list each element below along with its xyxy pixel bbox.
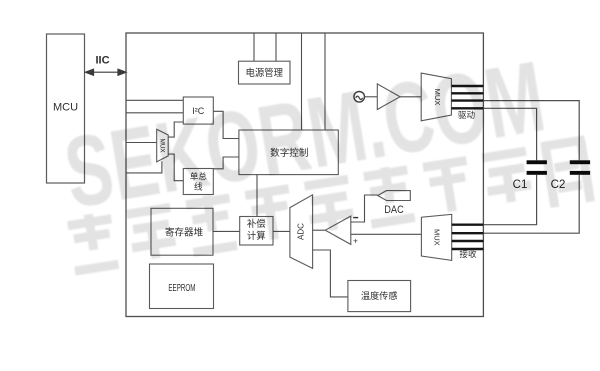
wire: box edge to I2C line 2 [126,112,183,114]
wire: DAC to comparator minus input [351,195,378,222]
svg-text:接收: 接收 [459,248,477,259]
watermark row 1: SEKORM.COM [57,40,552,229]
wire: oscillator to amplifier [365,96,378,98]
receive input line 3 [452,240,484,242]
receive input line 1 [452,223,484,225]
svg-text:MUX: MUX [433,229,442,246]
wire: C2 bottom to receive line 2 [483,175,579,233]
svg-text:寄存器堆: 寄存器堆 [165,227,204,239]
watermark row 2: CJK characters (drawn) [67,136,595,283]
driver output line 2 [451,92,483,94]
svg-text:MCU: MCU [53,102,78,114]
main chip boundary box [126,33,483,317]
wire: one-wire to digital control [213,157,239,169]
wire: VDD left to power mgmt [253,33,255,61]
one-wire (single bus) block [183,169,213,195]
svg-text:计算: 计算 [247,230,266,241]
compensation calc block [240,217,273,246]
wire: drive to C1 top [483,108,536,160]
temperature sensor block [348,281,411,312]
register file block [151,208,213,255]
amplifier (triangle) [377,84,400,110]
receiver mux (trapezoid) [421,214,451,260]
receive input line 2 [452,232,484,234]
driver mux (trapezoid) [421,73,451,121]
oscillator [354,92,365,103]
driver output line 3 [451,99,483,101]
wire: box edge to mux M1 [126,142,157,144]
wire: mux M1 to I2C [168,122,183,137]
bus select mux M1 [157,129,169,162]
comparator (triangle) [325,216,358,246]
svg-text:温度传感: 温度传感 [361,290,398,301]
capacitor C2 (transducer) [551,160,590,191]
EEPROM block [150,264,214,309]
wire: box edge to I2C line 1 [126,99,183,101]
svg-text:ADC: ADC [296,223,305,240]
svg-text:+: + [353,237,358,246]
wire: digital control to compensation [256,175,258,217]
digital control block [239,130,338,175]
wire: VDD right to power mgmt [275,33,277,61]
svg-text:DAC: DAC [384,204,404,216]
wire: comparator to ADC [313,229,326,231]
wire: box edge to mux M1 bottom [126,161,162,173]
wire: top edge to digital control (left) [301,33,303,130]
receive input line 4 [452,248,484,250]
DAC block (tag shape) [378,191,411,216]
wire: ADC to temperature sensor [313,250,348,297]
svg-text:电源管理: 电源管理 [245,67,283,78]
wire: register file to compensation [213,230,240,232]
capacitor C1 (transducer) [513,160,547,191]
wire: receiver mux to comparator plus input [351,233,422,235]
svg-text:EEPROM: EEPROM [168,282,195,294]
wire: drive to C2 top [483,101,579,161]
power management block [239,61,291,84]
wire: compensation to ADC [273,230,290,232]
I2C block [183,97,213,124]
MCU box [47,34,85,183]
driver output line 4 [451,107,483,109]
wire: mux M1 to one-wire block [168,154,183,181]
wire: amplifier to driver mux [400,96,421,98]
wire: top edge to digital control (right) [324,33,326,130]
IIC bus double arrow [86,55,127,76]
wire: C1 bottom to receive line 1 [483,175,536,225]
svg-text:补偿: 补偿 [247,218,266,229]
svg-text:IIC: IIC [95,55,109,67]
driver output line 1 [451,85,483,87]
wire: I2C to digital control [213,111,239,138]
ADC block (trapezoid) [290,195,313,269]
